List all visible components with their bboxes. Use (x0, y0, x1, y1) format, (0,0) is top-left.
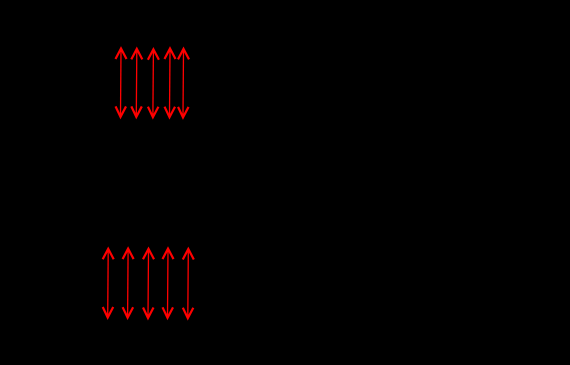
arrow B2 (123, 249, 133, 318)
arrow T5 (179, 49, 189, 118)
arrow B4 (163, 249, 173, 318)
arrow B3 (144, 249, 154, 318)
arrow B5 (183, 249, 193, 318)
arrow T4 (165, 49, 175, 118)
arrow T1 (116, 49, 126, 117)
arrow B1 (103, 249, 113, 318)
arrow T2 (132, 49, 142, 117)
arrow T3 (148, 49, 158, 117)
